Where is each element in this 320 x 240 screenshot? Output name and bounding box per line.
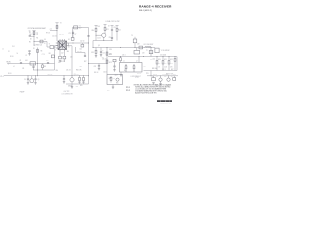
wire mixer out to Q3 column <box>69 45 72 47</box>
crystal Y1 body <box>74 26 78 29</box>
node x88.5 y43 <box>87 42 90 45</box>
ground below C1 <box>28 54 30 56</box>
resistor R16 <box>120 57 122 58</box>
ground below C10 <box>34 83 36 85</box>
svg-text:C25 .01: C25 .01 <box>102 58 107 60</box>
svg-text:1K: 1K <box>102 50 104 52</box>
inductor L2 inside FL2 <box>133 64 135 66</box>
transistor Q3 body <box>70 78 74 82</box>
node y40.5 b <box>111 39 114 42</box>
svg-text:Q3: Q3 <box>98 45 100 47</box>
svg-text:C11: C11 <box>22 68 25 70</box>
svg-text:R12: R12 <box>118 30 121 32</box>
capacitor C26 <box>111 37 113 40</box>
node IF takeoff <box>72 42 75 45</box>
capacitor C9 <box>27 76 29 79</box>
svg-text:R11: R11 <box>106 29 109 31</box>
capacitor C21 <box>63 76 65 79</box>
wire Q2 base <box>96 34 102 36</box>
svg-text:TP3: TP3 <box>146 73 149 75</box>
svg-text:C7 5: C7 5 <box>42 54 45 56</box>
crystal holder body <box>133 39 137 43</box>
wire Y2 stub up <box>134 37 136 39</box>
svg-text:R3: R3 <box>36 37 38 39</box>
power V+ mixer bar <box>55 22 58 24</box>
node IF d <box>134 46 137 49</box>
resistor R21 <box>162 57 164 61</box>
svg-text:R25: R25 <box>116 82 119 84</box>
capacitor C22 body <box>81 44 84 47</box>
svg-text:R27: R27 <box>171 69 174 71</box>
resistor R23 <box>174 57 176 59</box>
svg-text:C12: C12 <box>61 52 64 54</box>
wire T1 link <box>54 46 56 48</box>
svg-text:S/N-1 (MOD 2): S/N-1 (MOD 2) <box>139 10 152 12</box>
wire C20 lead <box>153 76 155 78</box>
transistor Q4 body <box>159 78 162 81</box>
trimmer CT1 body <box>71 38 74 41</box>
svg-text:Y1: Y1 <box>79 26 81 28</box>
svg-text:C60: C60 <box>152 76 155 78</box>
resistor R8 body <box>51 55 54 58</box>
wire link 70.5-75.8 <box>150 71 152 76</box>
capacitor C2 stub <box>29 34 31 37</box>
wire stub y36 <box>31 35 35 37</box>
wire mixer pin left stub <box>55 45 58 47</box>
node bus C9 <box>27 74 30 77</box>
svg-text:C61: C61 <box>164 76 167 78</box>
wire RF line y63.5 <box>9 63 55 65</box>
capacitor C23 <box>98 64 100 66</box>
svg-text:J1: J1 <box>2 48 4 50</box>
svg-text:C12 5: C12 5 <box>97 38 101 40</box>
svg-text:C33: C33 <box>80 65 83 67</box>
capacitor C1 <box>28 50 30 53</box>
svg-text:LOG DETECTOR: LOG DETECTOR <box>62 93 73 95</box>
ground below Q4 <box>159 83 161 85</box>
svg-text:C8: C8 <box>29 30 31 32</box>
svg-text:R40 1K: R40 1K <box>137 73 141 75</box>
svg-text:C18: C18 <box>137 44 140 46</box>
svg-text:220: 220 <box>109 37 111 39</box>
svg-text:Y2 10.245 MC: Y2 10.245 MC <box>161 50 170 52</box>
svg-text:R2: R2 <box>29 41 31 43</box>
node IF a <box>92 46 95 49</box>
svg-text:R32 100: R32 100 <box>48 74 53 76</box>
svg-text:R22: R22 <box>170 59 173 61</box>
resistor R19 <box>83 76 85 78</box>
ground below C21 <box>63 82 65 84</box>
node x88.5 y75.7 <box>87 74 90 77</box>
svg-text:2.2K: 2.2K <box>109 54 112 56</box>
node out a <box>150 74 153 77</box>
wire x85 drop <box>84 53 86 56</box>
wire IF takeoff y43 <box>69 42 89 44</box>
svg-text:2.2K: 2.2K <box>164 67 167 69</box>
wire V+ into mixer <box>56 31 58 42</box>
transistor Q1 body <box>30 79 34 83</box>
wire Q3 base drop <box>71 84 73 87</box>
node bus-rail junction <box>36 74 39 77</box>
node bus R18 <box>78 74 81 77</box>
ground below R13 <box>95 56 97 58</box>
svg-text:Y3: Y3 <box>131 35 133 37</box>
transformer T2 body <box>134 50 140 54</box>
node IF b <box>106 46 109 49</box>
resistor R15 <box>106 60 108 63</box>
svg-text:C9: C9 <box>24 79 26 81</box>
crystal Y2 body <box>155 48 159 53</box>
capacitor C4 <box>33 64 35 67</box>
resistor R11 <box>104 25 106 28</box>
power bar osc4 <box>116 25 119 27</box>
svg-text:C13: C13 <box>46 60 49 62</box>
wire y63.5 link <box>89 63 108 65</box>
wire Q4 lead <box>160 76 162 78</box>
svg-text:R19: R19 <box>80 85 83 87</box>
node x88.5 y63.5 <box>87 62 90 65</box>
svg-text:C31 .05: C31 .05 <box>66 70 71 72</box>
wire y56.5 row <box>108 56 177 58</box>
svg-text:R20: R20 <box>158 59 161 61</box>
resistor R12 <box>116 26 118 29</box>
svg-text:C60 10: C60 10 <box>153 74 157 76</box>
wire C22 stub <box>81 43 83 44</box>
wire mixer V+ row <box>50 30 57 32</box>
svg-text:C41 1: C41 1 <box>122 55 126 57</box>
capacitor C10 <box>35 76 37 79</box>
svg-text:C14 .01: C14 .01 <box>52 36 57 38</box>
wire Q4 gnd lead <box>160 81 162 83</box>
wire FL2 ground drop <box>120 72 122 75</box>
diode CR1 body <box>116 78 119 81</box>
svg-text:P2-2: P2-2 <box>126 90 130 92</box>
svg-text:R1: R1 <box>29 32 31 34</box>
capacitor C16 body <box>113 59 116 62</box>
node y56.5 c <box>142 55 145 58</box>
power bar osc1 <box>95 25 98 27</box>
svg-text:P2-1: P2-1 <box>126 87 130 89</box>
svg-text:Q4 2N706: Q4 2N706 <box>162 74 168 76</box>
wire y70 row <box>33 69 55 71</box>
svg-text:CR1: CR1 <box>109 78 112 80</box>
capacitor C13 body <box>63 56 66 59</box>
svg-text:R14: R14 <box>109 49 112 51</box>
resistor R20 <box>156 57 158 61</box>
resistor R17 <box>110 76 112 77</box>
wire mixer bot v2 <box>63 51 65 56</box>
wire x151 drop <box>150 48 152 57</box>
resistor R7 <box>56 25 58 28</box>
node rail y41.5 <box>33 40 36 43</box>
ground below y84 row <box>71 87 73 89</box>
svg-text:Q2 2N918: Q2 2N918 <box>34 45 40 47</box>
ground below FL2 <box>120 75 122 77</box>
resistor R14 <box>106 52 108 55</box>
wire mixer input vertical <box>54 46 56 71</box>
svg-text:R30 1K: R30 1K <box>94 72 98 74</box>
node bus Q3 <box>71 74 74 77</box>
svg-text:P1: P1 <box>8 51 10 53</box>
ground below C23 <box>98 68 100 70</box>
ground below C9 <box>27 83 29 85</box>
svg-text:10K: 10K <box>29 34 31 36</box>
svg-text:Q2: Q2 <box>40 45 42 47</box>
svg-text:C22 10: C22 10 <box>80 41 84 43</box>
node IF e <box>150 46 153 49</box>
power bar osc3 <box>111 25 114 27</box>
svg-text:C51 1000: C51 1000 <box>160 54 166 56</box>
signature mark <box>157 100 172 102</box>
svg-text:C15 .01: C15 .01 <box>59 34 64 36</box>
wire IF bus y47.5 <box>93 47 155 49</box>
svg-text:1K: 1K <box>158 67 160 69</box>
node y30.5 V+ <box>56 29 59 32</box>
wire upper rail vertical <box>33 31 35 46</box>
wire long bus y75.7 <box>4 75 89 77</box>
wire Q3 collector <box>71 46 73 78</box>
wire Q1 collector <box>31 76 33 79</box>
wire y84 row <box>66 83 89 85</box>
resistor R1 <box>33 32 35 35</box>
wire Y2 drop <box>134 43 136 48</box>
svg-text:R4: R4 <box>41 51 43 53</box>
detector module body <box>107 75 123 85</box>
resistor R22 <box>168 57 170 61</box>
svg-text:R8: R8 <box>49 53 51 55</box>
svg-text:C13: C13 <box>113 27 116 29</box>
wire box top right drop <box>138 57 140 63</box>
svg-text:C52 .1: C52 .1 <box>162 69 166 71</box>
wire Q5 lead <box>168 76 170 78</box>
svg-text:Q1: Q1 <box>38 79 40 81</box>
resistor R10 <box>95 26 97 29</box>
wire y52.5 stub <box>76 52 86 54</box>
svg-text:C44: C44 <box>144 65 147 67</box>
wire Q2 emitter <box>103 37 105 40</box>
svg-text:C3: C3 <box>20 60 22 62</box>
mixer U1 body <box>58 41 67 50</box>
svg-text:C35: C35 <box>76 86 79 88</box>
capacitor C5 body <box>40 40 43 43</box>
wire lower rail vertical <box>37 48 39 76</box>
resistor R4 on rail <box>37 49 39 52</box>
svg-text:C19: C19 <box>142 53 145 55</box>
capacitor C12 body <box>59 56 62 59</box>
wire xtal left drop <box>72 28 74 38</box>
wire mixer right vertical <box>68 43 70 46</box>
svg-text:C1: C1 <box>25 55 27 57</box>
ground below detector <box>112 87 114 89</box>
capacitor C20 body <box>152 78 156 81</box>
node rail y70 <box>36 69 39 72</box>
svg-text:T3: T3 <box>60 23 62 25</box>
wire mixer bot v1 <box>59 51 61 56</box>
svg-text:R10: R10 <box>92 30 95 32</box>
svg-text:Q5: Q5 <box>171 76 173 78</box>
node rail y36 <box>33 35 36 38</box>
svg-text:CT1: CT1 <box>68 33 71 35</box>
node out c <box>167 74 170 77</box>
resistor R13 <box>95 48 97 51</box>
svg-text:T1: T1 <box>49 44 51 46</box>
inductor L3 <box>145 46 151 47</box>
svg-text:C27: C27 <box>102 57 105 59</box>
svg-text:4 TP1: 4 TP1 <box>135 77 139 79</box>
ground below C20 <box>152 83 154 85</box>
wire x73 drop <box>72 31 74 39</box>
capacitor C17 <box>114 62 116 66</box>
svg-text:5.6K: 5.6K <box>150 59 153 61</box>
wire right edge vertical <box>176 57 178 71</box>
svg-text:470: 470 <box>170 67 172 69</box>
resistor R18 <box>79 76 81 78</box>
svg-text:R15: R15 <box>109 62 112 64</box>
svg-text:ROCKET RCVR CO.: ROCKET RCVR CO. <box>160 103 172 105</box>
node out b <box>159 74 162 77</box>
node IF c <box>119 46 122 49</box>
capacitor C13b series <box>47 61 49 64</box>
ground below R19 <box>82 82 84 84</box>
svg-text:C6: C6 <box>44 39 46 41</box>
svg-text:C30: C30 <box>56 70 59 72</box>
svg-text:C16: C16 <box>70 57 73 59</box>
svg-text:R9 10: R9 10 <box>8 73 12 75</box>
wire R24 lead <box>173 76 175 78</box>
wire C13 drop <box>63 59 65 62</box>
svg-text:.001: .001 <box>25 60 28 62</box>
svg-text:C4: C4 <box>36 32 38 34</box>
node strip a <box>156 55 159 58</box>
svg-text:U1: U1 <box>68 39 70 41</box>
svg-text:R21: R21 <box>164 59 167 61</box>
node bus R19 <box>82 74 85 77</box>
svg-text:P1-2: P1-2 <box>1 76 4 78</box>
svg-text:R5 50: R5 50 <box>10 56 14 58</box>
svg-text:C48: C48 <box>113 77 116 79</box>
svg-text:C51: C51 <box>153 58 156 60</box>
node y56.5 a <box>119 55 122 58</box>
node strip c <box>168 55 171 58</box>
inductor L1 inside FL2 <box>125 64 127 66</box>
svg-text:R18: R18 <box>76 74 79 76</box>
capacitor C3 series <box>20 61 22 64</box>
svg-text:1K: 1K <box>33 48 35 50</box>
svg-text:4.5V TP2: 4.5V TP2 <box>64 91 70 93</box>
svg-text:RANGE-4 RECEIVER: RANGE-4 RECEIVER <box>139 5 172 9</box>
svg-text:C22: C22 <box>79 49 82 51</box>
svg-text:FL2: FL2 <box>124 70 127 72</box>
node y56.5 b <box>138 55 141 58</box>
power rail V+ bar <box>32 30 35 32</box>
wire out bus y75.8 <box>147 75 178 77</box>
svg-text:R13: R13 <box>91 52 94 54</box>
capacitor C15 <box>100 48 102 52</box>
filter module FL2 body <box>120 63 143 73</box>
resistor R24 body <box>173 78 176 81</box>
mixer U1 cross <box>58 41 67 50</box>
svg-text:C40 1: C40 1 <box>103 71 107 73</box>
mixer U1 winding marks <box>59 42 65 49</box>
svg-text:C23: C23 <box>94 66 97 68</box>
resistor R6 <box>42 64 44 65</box>
svg-text:10K: 10K <box>97 26 99 28</box>
node y40.5 a <box>102 39 105 42</box>
wire bias row drop to T1 <box>47 42 50 48</box>
svg-text:C7: C7 <box>75 34 77 36</box>
wire xtal row y27.5 <box>73 27 89 29</box>
svg-text:R26 100: R26 100 <box>152 68 157 70</box>
wire V+ mixer drop <box>56 23 58 31</box>
svg-text:R17: R17 <box>84 61 87 63</box>
wire detector ground drop <box>112 85 114 88</box>
wire right column x88.5 <box>88 28 90 85</box>
svg-text:.01: .01 <box>36 34 38 36</box>
capacitor C24 <box>84 55 86 58</box>
svg-text:1K: 1K <box>108 26 110 28</box>
node base junction <box>95 34 98 37</box>
svg-text:10.7: 10.7 <box>79 28 82 30</box>
node rail y63.5 <box>36 62 39 65</box>
ground below C12 <box>59 61 61 63</box>
ground below R18 <box>78 82 80 84</box>
svg-text:TP5: TP5 <box>107 90 110 92</box>
filter FL1 body <box>30 62 36 65</box>
power bar osc2 <box>104 24 107 26</box>
svg-text:Q4: Q4 <box>156 76 158 78</box>
transistor Q5 body <box>167 78 170 81</box>
svg-text:P1-1: P1-1 <box>12 46 15 48</box>
wire x75.5 link <box>75 47 77 53</box>
node strip b <box>162 55 165 58</box>
wire osc row y40.5 <box>93 40 112 42</box>
capacitor C19 body <box>149 51 153 54</box>
mixer U1 pin stubs <box>56 39 69 51</box>
svg-text:R31 330: R31 330 <box>77 51 82 53</box>
capacitor C6 on column <box>87 34 89 37</box>
wire Q3 emitter <box>71 82 73 84</box>
svg-text:2N918: 2N918 <box>68 86 72 88</box>
terminal RF input <box>8 63 9 64</box>
balun T1 left <box>50 46 54 49</box>
svg-text:R7 1K: R7 1K <box>46 32 50 34</box>
wire osc left drop <box>92 41 94 48</box>
svg-text:R18 4.7K: R18 4.7K <box>76 70 82 72</box>
wire y70.5 row <box>144 70 178 72</box>
svg-text:OUT: OUT <box>173 74 176 76</box>
ground below C15 <box>100 55 102 57</box>
svg-text:L3 2.2UH 10%T: L3 2.2UH 10%T <box>144 44 154 46</box>
node bus C10 <box>34 74 37 77</box>
capacitor C14 <box>111 26 113 30</box>
svg-text:R6: R6 <box>44 66 46 68</box>
wire bias row y41.5 <box>34 41 47 43</box>
transistor Q2 body <box>102 33 106 37</box>
capacitor C7 <box>72 32 74 35</box>
svg-text:R16 220: R16 220 <box>60 61 65 63</box>
svg-text:390: 390 <box>67 51 69 53</box>
node bus C21 <box>63 74 66 77</box>
svg-text:C15: C15 <box>102 52 105 54</box>
svg-text:+12: +12 <box>50 29 52 31</box>
wire T2 stub <box>136 48 138 51</box>
ground below C17 <box>113 70 115 72</box>
node strip d <box>174 55 177 58</box>
node x107 y63.5 <box>106 62 109 65</box>
capacitor C18 body <box>139 46 143 49</box>
wire x107 drop <box>106 48 108 75</box>
